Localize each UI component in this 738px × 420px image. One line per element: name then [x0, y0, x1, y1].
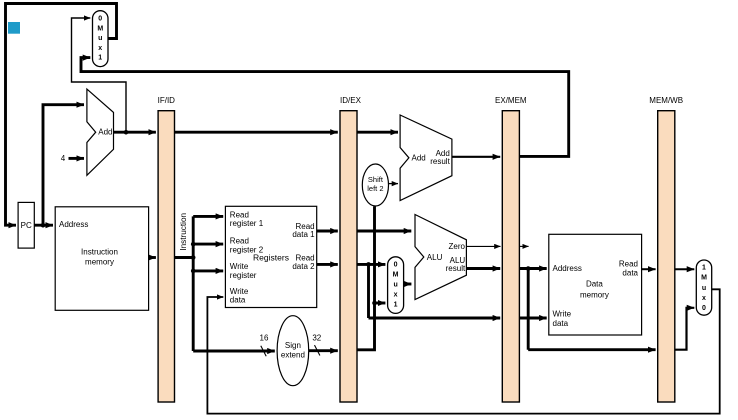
wire constant 4 into Add [69, 157, 85, 160]
wire instruction to Read register 2 [193, 243, 223, 246]
wire read data 1 to ID/EX [317, 230, 338, 233]
svg-text:32: 32 [312, 334, 321, 343]
svg-text:Address: Address [59, 220, 88, 229]
adder PC+4 Add [87, 89, 114, 175]
mux PC source [93, 11, 109, 67]
pipeline register IF/ID [158, 96, 176, 402]
wire ALU mux output to ALU [404, 283, 412, 286]
svg-text:memory: memory [580, 290, 609, 299]
wire instruction memory output to IF/ID [149, 256, 156, 259]
svg-text:data: data [230, 295, 246, 304]
wire write-back mux output to registers write data [207, 289, 719, 413]
svg-text:0: 0 [394, 261, 398, 268]
junction PC+4 branch [124, 130, 129, 135]
svg-text:M: M [393, 271, 399, 278]
wire PC to instruction memory address [34, 224, 53, 227]
svg-text:data 1: data 1 [292, 230, 315, 239]
svg-text:Read: Read [619, 259, 638, 268]
svg-text:16: 16 [260, 334, 269, 343]
svg-text:Write: Write [553, 310, 572, 319]
svg-text:data: data [553, 319, 569, 328]
bus width slash 16 [261, 346, 266, 356]
register PC [18, 202, 34, 248]
junction instruction bus [191, 255, 196, 260]
svg-text:1: 1 [394, 302, 398, 309]
svg-text:u: u [393, 282, 397, 289]
svg-text:4: 4 [61, 154, 66, 163]
bus width slash 32 [315, 345, 320, 355]
wire ALU result from MEM/WB to write-back mux input 0 [675, 308, 695, 350]
svg-text:1: 1 [702, 264, 706, 271]
svg-text:Read: Read [230, 237, 249, 246]
wire Add output (PC+4) to IF/ID [114, 131, 156, 134]
svg-text:result: result [446, 264, 466, 273]
wire write data from EX/MEM to data memory [519, 317, 546, 320]
svg-text:1: 1 [98, 55, 102, 62]
svg-text:M: M [97, 25, 103, 32]
ALU main [415, 215, 466, 300]
svg-text:Registers: Registers [253, 253, 289, 263]
wire instruction vertical distribution [192, 216, 195, 351]
svg-text:register 1: register 1 [230, 219, 264, 228]
junction sign-extend to mux tap [372, 301, 377, 306]
svg-text:result: result [430, 157, 450, 166]
svg-text:Instruction: Instruction [179, 212, 188, 250]
sign extend unit [277, 316, 309, 386]
wire sign-extended value from ID/EX up to shift left 2 [357, 206, 375, 350]
junction ALU result branch [526, 266, 531, 271]
mux write-back [696, 260, 711, 315]
wire PC+4 to mux input 0 [72, 18, 127, 132]
junction read data 2 branch [366, 262, 371, 267]
svg-text:left 2: left 2 [367, 184, 383, 193]
junction PC output branch [41, 223, 46, 228]
svg-text:x: x [702, 295, 706, 302]
pipeline register MEM/WB [649, 96, 683, 402]
junction instruction RR2 tap [191, 242, 196, 247]
pipeline register ID/EX [340, 96, 362, 402]
svg-text:Write: Write [230, 262, 249, 271]
wire ALU zero flag to EX/MEM [466, 245, 500, 247]
svg-text:Address: Address [553, 264, 582, 273]
wire data memory read data to MEM/WB [642, 268, 656, 270]
wire instruction to Write register [193, 269, 223, 272]
cyan bullet square [8, 22, 20, 34]
svg-text:Sign: Sign [285, 341, 301, 350]
wire read data from MEM/WB to write-back mux input 1 [675, 268, 695, 270]
wire instruction to sign extend [193, 350, 275, 353]
svg-text:data 2: data 2 [292, 262, 315, 271]
wire ALU result to data memory address [519, 267, 546, 270]
svg-text:0: 0 [702, 305, 706, 312]
wire zero flag out of EX/MEM (branch) [519, 245, 528, 247]
wire sign-extended value to ALU mux input 1 [375, 302, 386, 305]
wire PC-select mux output to PC (feedback loop) [6, 4, 117, 226]
wire ALU result to MEM/WB [528, 348, 655, 351]
svg-text:data: data [622, 269, 638, 278]
wire branch target from EX/MEM to mux input 1 [81, 58, 569, 157]
svg-text:PC: PC [21, 221, 32, 230]
svg-text:ALU: ALU [427, 253, 443, 262]
svg-text:Data: Data [586, 280, 603, 289]
wire read data 2 to ID/EX [317, 263, 338, 266]
adder branch Add result [400, 115, 452, 201]
wire shift left 2 output to branch Add [389, 183, 398, 185]
svg-text:memory: memory [85, 258, 114, 267]
svg-text:Instruction: Instruction [81, 248, 118, 257]
svg-text:x: x [394, 292, 398, 299]
wire PC+4 from IF/ID to ID/EX [175, 131, 338, 134]
svg-text:Add: Add [412, 153, 426, 162]
wire PC+4 from ID/EX to branch Add [357, 131, 398, 134]
svg-text:u: u [702, 285, 706, 292]
svg-text:Zero: Zero [449, 242, 466, 251]
wire instruction bus from IF/ID [175, 256, 194, 259]
svg-text:M: M [701, 275, 707, 282]
svg-text:0: 0 [98, 16, 102, 23]
svg-text:Shift: Shift [368, 175, 384, 184]
wire instruction to Read register 1 [193, 215, 223, 218]
svg-text:u: u [98, 35, 102, 42]
svg-text:EX/MEM: EX/MEM [495, 96, 527, 105]
wire read data 2 down to write-data path [367, 264, 370, 318]
pipeline register EX/MEM [495, 96, 527, 402]
data memory [549, 234, 642, 335]
svg-text:ID/EX: ID/EX [340, 96, 362, 105]
svg-text:register: register [230, 271, 257, 280]
wire ALU result to EX/MEM [466, 267, 500, 270]
registers block [225, 206, 316, 307]
mux ALU operand B [388, 257, 404, 314]
wire ALU result down to MEM/WB path [527, 269, 530, 350]
instruction memory [55, 207, 148, 310]
svg-text:IF/ID: IF/ID [158, 96, 176, 105]
wire branch Add result to EX/MEM [452, 156, 500, 158]
wire read data 1 from ID/EX to ALU [357, 230, 411, 233]
svg-text:MEM/WB: MEM/WB [649, 96, 683, 105]
svg-text:x: x [98, 45, 102, 52]
wire PC value up to Add input [43, 105, 84, 226]
junction instruction WR tap [191, 269, 196, 274]
wire sign extend output to ID/EX [309, 349, 338, 352]
svg-text:Add: Add [98, 128, 112, 137]
wire read data 2 from ID/EX to ALU mux input 0 [357, 263, 386, 266]
shift left 2 unit [362, 164, 388, 206]
wire write data to EX/MEM [369, 317, 501, 320]
svg-text:extend: extend [281, 351, 305, 360]
